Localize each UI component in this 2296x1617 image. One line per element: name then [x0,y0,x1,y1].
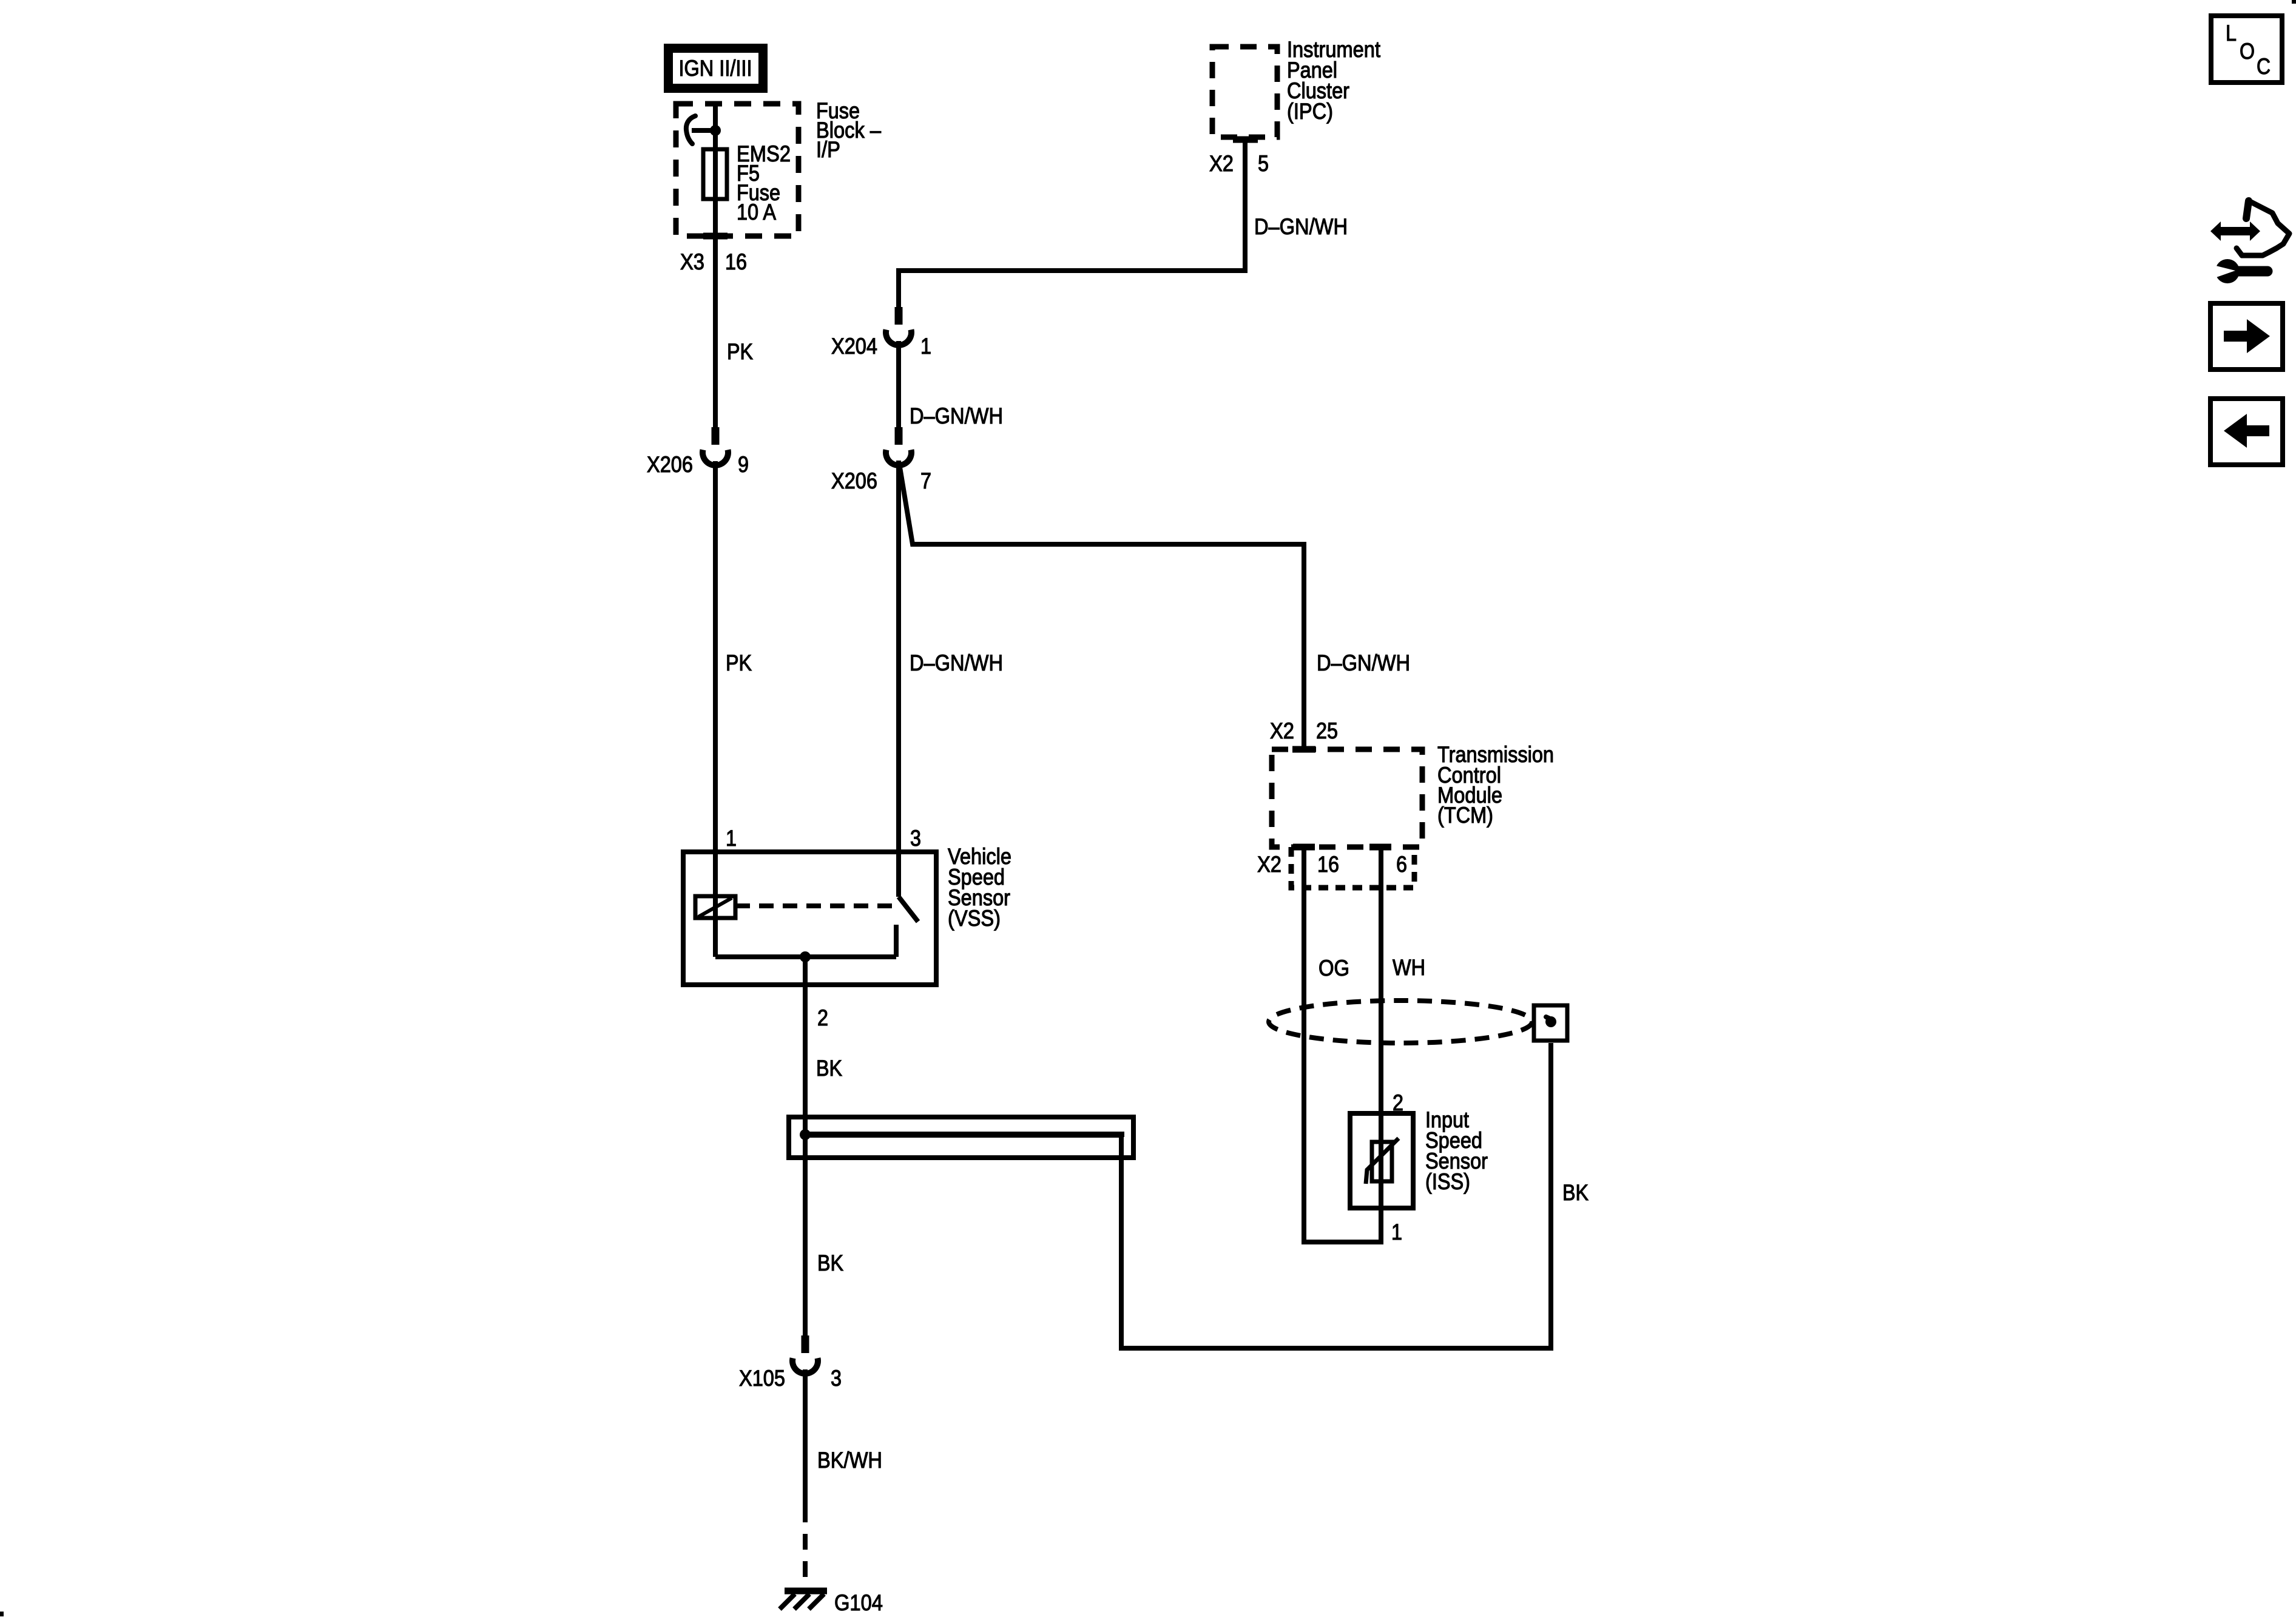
tick IPC X2-5 [1233,137,1258,143]
svg-text:IGN II/III: IGN II/III [679,56,752,81]
back arrow box [2210,399,2283,465]
wire BK: VSS pin 2 to splice [803,985,808,1335]
svg-text:D–GN/WH: D–GN/WH [910,650,1003,675]
label Instrument Panel Cluster (IPC) [1287,37,1381,124]
splice junction dot [800,1129,811,1140]
connector X206 pin 9 [703,427,728,465]
svg-text:25: 25 [1316,718,1338,743]
VSS internal bottom wire [715,954,896,959]
dashed wire to ground [803,1507,808,1586]
VSS internal junction dot [800,951,811,962]
label Fuse Block I/P [816,98,881,162]
svg-text:X204: X204 [831,334,877,359]
svg-text:3: 3 [910,826,921,851]
svg-text:BK/WH: BK/WH [817,1448,882,1473]
junction dot at fuse bus [710,125,721,136]
wire D-GN/WH: IPC pin 5 down and left to X204 [899,140,1245,307]
svg-text:(VSS): (VSS) [948,906,1001,931]
svg-text:I/P: I/P [816,137,840,162]
connector X105 pin 3 [792,1335,818,1374]
connector X204 pin 1 [886,307,911,345]
fuse block I/P (dashed box) [676,104,799,236]
svg-text:G104: G104 [834,1590,883,1615]
svg-text:2: 2 [1393,1090,1403,1115]
svg-text:O: O [2240,39,2255,64]
wire WH: TCM X2-6 down to ISS pin 2 [1379,847,1383,1208]
wire BK: shield box down, left, up to splice [1121,1043,1551,1348]
twisted-pair loop (dashed ellipse) [1269,1001,1532,1043]
svg-text:BK: BK [1562,1180,1589,1205]
label X206 | 9 [647,452,749,477]
svg-text:OG: OG [1319,956,1349,981]
wire PK: X206-9 to VSS pin 1 [713,461,718,852]
VSS switch blade [899,897,918,922]
VSS fixed contact [894,925,899,957]
svg-text:1: 1 [726,826,737,851]
label X206 | 7 [831,468,931,493]
svg-text:L: L [2226,21,2237,46]
tick TCM X2-6 [1369,844,1391,851]
connector X206 pin 7 [886,427,911,465]
svg-text:9: 9 [738,452,749,477]
svg-text:6: 6 [1396,852,1407,877]
stray dot bottom left [0,1612,4,1616]
wire BK/WH: X105 to ground [803,1369,808,1507]
svg-text:(ISS): (ISS) [1425,1169,1470,1194]
svg-text:(TCM): (TCM) [1437,803,1493,828]
svg-text:7: 7 [920,468,931,493]
instrument panel cluster IPC (dashed box) [1212,47,1277,137]
splice internal bus [805,1135,1121,1137]
svg-text:X2: X2 [1209,151,1234,176]
svg-text:D–GN/WH: D–GN/WH [1317,650,1410,675]
svg-text:1: 1 [1391,1220,1402,1244]
power feed label IGN II/III [664,44,768,93]
svg-text:D–GN/WH: D–GN/WH [910,403,1003,428]
svg-text:BK: BK [816,1056,842,1081]
VSS internal dashed link [735,903,893,908]
input speed sensor ISS (box) [1350,1113,1413,1208]
TCM X2 output connector strip (dashed) [1291,847,1414,888]
label Input Speed Sensor (ISS) [1425,1107,1488,1194]
svg-text:X2: X2 [1257,852,1281,877]
fuse F5 10A (EMS2) [703,149,727,199]
wire D-GN/WH: X204 to X206-7 [896,341,901,427]
VSS coil element [695,896,735,918]
svg-text:WH: WH [1393,955,1425,980]
svg-text:X105: X105 [739,1366,785,1391]
bus hook terminal symbol [686,116,715,144]
svg-text:5: 5 [1258,151,1269,176]
svg-text:PK: PK [727,339,753,364]
svg-text:PK: PK [726,650,752,675]
tick TCM X2-16 [1293,844,1315,851]
svg-text:3: 3 [831,1366,842,1391]
svg-text:2: 2 [817,1005,828,1030]
svg-text:10 A: 10 A [737,200,776,224]
wire OG: TCM X2-16 down, right to ISS pin 1 [1304,847,1381,1242]
label X3 | 16 [680,249,747,274]
svg-text:C: C [2257,54,2271,79]
svg-text:(IPC): (IPC) [1287,99,1333,124]
VSS internal wire pin1 to coil to bottom [713,852,718,957]
tick TCM X2-25 [1292,746,1315,753]
label Transmission Control Module (TCM) [1437,742,1554,828]
drain/shield termination box [1534,1005,1567,1041]
VSS pin 2 internal drop [803,957,808,985]
page corner mark top right [2292,0,2296,4]
LOC legend box [2211,16,2282,83]
tick X3-16 at fuse block bottom [703,233,728,240]
ISS variable reluctance element [1366,1138,1399,1184]
label X204 | 1 [831,334,931,359]
vehicle speed sensor VSS (box) [683,852,936,985]
label X2 | 5 [1209,151,1269,176]
forward arrow box [2210,303,2283,370]
label X2 | 16 | 6 [1257,852,1407,877]
svg-text:BK: BK [817,1251,843,1275]
svg-text:1: 1 [920,334,931,359]
wire: fuse feed (vertical through fuse block) [713,101,718,242]
diagnostic wrench icon [2210,201,2289,283]
label X105 | 3 [739,1366,842,1391]
wire D-GN/WH branch: X206-7 to TCM X2-25 [899,464,1304,749]
svg-text:X206: X206 [647,452,693,477]
label EMS2 F5 Fuse 10 A [737,141,791,224]
svg-text:16: 16 [725,249,747,274]
svg-text:D–GN/WH: D–GN/WH [1254,214,1348,239]
svg-text:X206: X206 [831,468,877,493]
svg-text:X3: X3 [680,249,704,274]
svg-text:16: 16 [1317,852,1339,877]
transmission control module TCM (dashed box) [1272,749,1422,847]
label Vehicle Speed Sensor (VSS) [948,844,1011,931]
wire PK: fuse block to X206-9 [713,242,718,427]
wire D-GN/WH: X206-7 down to VSS pin 3 [896,461,901,897]
svg-text:X2: X2 [1270,718,1294,743]
ground symbol G104 [780,1591,827,1609]
splice pack (box) [789,1117,1133,1158]
label X2 | 25 [1270,718,1338,743]
